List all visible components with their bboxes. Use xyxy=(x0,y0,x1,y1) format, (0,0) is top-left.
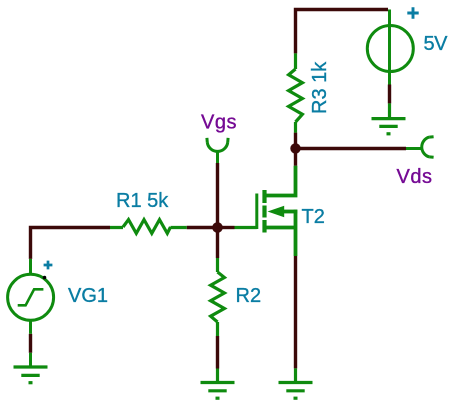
wire T2 source to ground xyxy=(294,256,297,368)
svg-text:Vds: Vds xyxy=(397,166,433,188)
resistor R2 xyxy=(211,258,225,336)
5V plus sign xyxy=(407,7,418,18)
svg-text:R1 5k: R1 5k xyxy=(116,190,169,212)
svg-text:VG1: VG1 xyxy=(68,285,108,307)
terminal Vgs xyxy=(207,138,228,163)
wire R1 right to gate node xyxy=(187,226,213,229)
wire gate node to T2 gate lead xyxy=(222,226,235,229)
voltage source 5V (battery) xyxy=(367,10,413,85)
wire Vgs stem down to gate node xyxy=(216,163,219,223)
resistor R1 xyxy=(110,220,187,234)
wire R2 bottom to ground xyxy=(216,336,219,369)
transistor T2 xyxy=(235,166,298,256)
drain connection xyxy=(265,166,296,196)
source lead down xyxy=(294,210,298,256)
wire R3 bottom to drain node xyxy=(294,133,297,144)
node junction drain (R3/T2/Vds) xyxy=(290,143,300,153)
terminal Vds xyxy=(406,137,434,158)
svg-text:T2: T2 xyxy=(302,206,325,228)
ground below T2 source xyxy=(279,368,313,398)
voltage source VG1 xyxy=(8,259,54,366)
svg-text:Vgs: Vgs xyxy=(201,112,237,134)
wire drain node to Vds stem xyxy=(299,147,406,150)
gate lead xyxy=(235,226,257,229)
node junction gate (R1/R2/T2) xyxy=(212,222,223,233)
wire VG1 bottom to ground xyxy=(29,334,32,353)
svg-text:5V: 5V xyxy=(424,33,449,55)
gate plate xyxy=(255,194,258,230)
wire VG1 top corner to R1 xyxy=(31,228,111,259)
wire gate node down to R2 xyxy=(216,232,219,258)
resistor R3 xyxy=(289,53,303,132)
wire 5V bottom to ground xyxy=(388,85,391,104)
VG1 positive pin dot xyxy=(43,276,47,280)
wire top loop (R3 top to 5V) xyxy=(296,10,389,54)
body line with arrow xyxy=(283,210,297,214)
ground below 5V xyxy=(372,103,406,133)
ground below R2 xyxy=(201,369,235,399)
svg-text:R2: R2 xyxy=(236,285,262,307)
wire drain node to T2 drain lead xyxy=(294,153,297,166)
source connection xyxy=(265,226,296,230)
svg-text:R3 1k: R3 1k xyxy=(309,61,331,114)
VG1 plus sign xyxy=(44,261,53,270)
ground below VG1 xyxy=(14,367,48,383)
channel contact bars xyxy=(262,190,266,233)
